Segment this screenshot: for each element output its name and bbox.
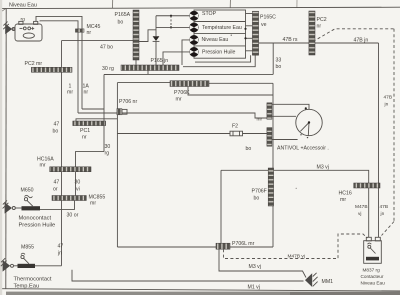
svg-text:bo: bo [254,196,260,202]
wire 33 bo [183,55,255,66]
svg-text:jn: jn [380,211,385,217]
junction dot [244,28,246,30]
scan margin tick [229,0,231,8]
connector antivol lower [267,128,272,147]
svg-text:Niveau Eau: Niveau Eau [9,3,37,9]
svg-text:M650: M650 [21,188,34,194]
wire P706K down right [188,87,273,96]
svg-text:ANTIVOL +Accessoir .: ANTIVOL +Accessoir . [277,146,329,152]
svg-text:jn: jn [384,102,389,108]
connector MC855 [52,196,86,201]
svg-text:STOP: STOP [202,11,217,17]
wire long to antivol [78,113,267,118]
border frame top line [0,7,400,8]
connector P165 [121,65,179,71]
svg-text:bo: bo [118,20,124,26]
svg-text:M47B: M47B [355,204,368,210]
harness box right edge [272,83,274,247]
monocontact M650 [22,195,41,210]
wire 47 bo long vertical [61,72,63,167]
lamp niveau eau [189,35,198,44]
wire row3 to P165C [246,37,253,39]
svg-text:nr: nr [87,30,92,36]
scan speck [136,21,137,22]
lamp STOP [189,11,198,20]
wire row2 to P165C [246,25,253,27]
junction dot [305,107,307,109]
wire 30 rg jog left [76,152,105,167]
fuse F2 [230,131,243,136]
wire M3 drop to P706L [220,170,222,243]
wire 47B jn lower [378,188,380,238]
lamp temperature eau [189,23,198,32]
wire 47 jn vertical [61,201,63,266]
connector PC2 (right) [309,11,315,55]
svg-text:P165 jn: P165 jn [151,58,169,64]
svg-text:mr: mr [176,96,182,102]
svg-text:bo: bo [276,64,282,70]
svg-text:47: 47 [54,122,60,128]
wire antivol mid feed [272,115,296,117]
lamp pression huile [189,47,198,56]
wire to lamp Niveau [182,40,190,65]
battery B1 [15,21,42,41]
left scan edge shading [0,0,2,295]
wire antivol lower to switch [272,139,298,141]
diode D1 [153,36,160,41]
wire PC1 to harness [76,119,117,121]
harness box left edge [116,83,118,247]
border frame left line [5,9,7,290]
scan margin tick [112,0,114,8]
scan margin tick [296,0,298,8]
wire M3 vj lower [219,249,306,277]
svg-text:M855: M855 [21,245,34,251]
wire 47 bo horizontal [62,40,134,42]
wire to lamp Pression [163,52,190,65]
svg-text:P706F: P706F [252,189,267,195]
junction dot [244,37,246,39]
svg-text:47B: 47B [380,204,389,210]
svg-text:P706 nr: P706 nr [119,99,137,105]
svg-text:nr: nr [317,24,322,30]
wire step b [195,55,251,62]
wire battery + upper [36,16,82,29]
svg-text:nr: nr [84,90,89,96]
svg-text:Pression Huile: Pression Huile [202,50,236,56]
wire 1A nr (x82) [81,32,83,109]
border frame bottom line [0,289,400,291]
connector HC16 [354,183,380,188]
svg-text:or: or [53,187,58,193]
scan speck [231,35,232,36]
svg-text:ve: ve [261,22,267,28]
connector PC2 (left) [31,67,72,72]
wire lamp feed vertical [155,16,157,65]
wire 47 drop to PC2 [61,41,63,68]
svg-text:PC2: PC2 [317,17,327,23]
connector P706K [170,81,209,87]
wire 47B jn dashed to M837 [382,222,395,236]
wire M47B vj dashed [224,234,368,259]
thermocontact M855 [18,253,62,268]
svg-text:47: 47 [58,244,64,250]
svg-text:Température Eau: Température Eau [202,25,242,31]
wire 47 or [61,172,63,196]
connector P165A [133,10,139,60]
svg-text:P706L mr: P706L mr [232,241,255,247]
svg-text:F2: F2 [232,124,238,130]
svg-text:47 bo: 47 bo [100,44,113,50]
svg-text:47B rs: 47B rs [283,37,298,43]
svg-text:mr: mr [67,90,73,96]
svg-text:Contacteur: Contacteur [361,274,384,279]
ignition switch (antivol) [296,109,322,138]
connector P706F [268,168,273,206]
svg-text:mr: mr [90,200,96,206]
svg-text:M1 vj: M1 vj [248,285,260,291]
connector MC45 [75,29,84,32]
svg-text:Thermocontact: Thermocontact [14,277,52,283]
contacteur niveau eau M837 [364,237,382,263]
wire row4 to P165C [246,50,253,52]
svg-text:Temp.Eau: Temp.Eau [14,284,40,290]
svg-text:jn: jn [57,251,62,257]
harness box top edge [117,82,273,85]
wire dot link [170,16,172,28]
svg-text:Pression Huile: Pression Huile [19,223,56,229]
svg-text:rg: rg [105,151,110,157]
svg-text:mr: mr [340,197,346,203]
wire 47B jn dashed diagonal [313,29,394,42]
junction dot [170,15,172,17]
svg-text:PC1: PC1 [80,128,90,134]
scan corner tick [2,8,7,11]
svg-text:33: 33 [276,58,282,64]
wire 30 vi [75,172,77,196]
wire 30 rg vertical [103,75,105,152]
ground (M855) [1,258,18,271]
svg-text:P165A: P165A [115,12,131,18]
wire M47B vj [368,188,370,238]
svg-text:30 or: 30 or [67,213,79,219]
wire row1 to P165C [246,13,253,15]
svg-text:47B: 47B [384,95,393,101]
svg-text:Niveau Eau: Niveau Eau [202,37,229,43]
svg-text:M3 vj: M3 vj [317,165,329,171]
wire M3 vj upper [221,170,369,183]
wire to lamp Temperature [156,26,190,28]
connector P165C [252,11,258,55]
svg-text:P165C: P165C [260,15,276,21]
lamp panel box [194,10,246,58]
svg-text:30: 30 [75,180,81,186]
bottom scan dark strip [6,292,400,295]
wire 30 rg to P165 [104,71,273,75]
svg-text:mr: mr [257,117,263,123]
wire P165A pin to lamp feed [139,30,156,42]
wire 47B jn dashed right edge [393,29,395,222]
svg-text:bo: bo [246,146,252,152]
wire M1 vj [72,270,304,281]
wire to lamp STOP [156,15,190,17]
ground (battery) [3,22,15,35]
connector P706 [117,109,127,115]
wire 47B rs [259,42,379,44]
ground MM1 [305,273,318,287]
svg-text:bo: bo [53,129,59,135]
svg-text:Niveau Eau: Niveau Eau [361,281,386,286]
wire 30 or [40,201,75,210]
wire F2 feed [117,133,230,135]
wire P165A to P165 [135,60,137,65]
svg-text:vj: vj [358,211,361,217]
svg-text:M47B vj: M47B vj [288,254,305,260]
wire battery + lower [40,21,78,29]
scan speck [296,188,297,189]
svg-text:mr: mr [40,162,46,168]
svg-text:PC2 mr: PC2 mr [25,61,43,67]
svg-text:30: 30 [105,144,111,150]
wire 33 link vertical [272,43,274,74]
wire 1 mr (x78) [77,32,79,113]
connector antivol upper [267,103,272,119]
svg-text:nr: nr [82,135,87,141]
wire antivol top feed [272,104,309,109]
harness box bottom edge [117,246,273,248]
connector PC1 [73,121,106,126]
ground (M650) [3,200,22,213]
wire F2 to antivol [243,133,267,135]
svg-text:M3 vj: M3 vj [249,264,261,270]
wire 47B rs vertical [378,43,380,183]
svg-text:vi: vi [76,187,80,193]
svg-text:HC16: HC16 [339,191,352,197]
connector HC16A [50,167,91,172]
svg-text:30 rg: 30 rg [102,66,114,72]
svg-text:47B jn: 47B jn [354,38,369,44]
svg-text:Monocontact: Monocontact [19,216,52,222]
connector P706L [216,243,230,249]
svg-text:47: 47 [54,180,60,186]
svg-text:MM1: MM1 [322,279,334,285]
svg-text:M837 rg: M837 rg [363,268,381,273]
wire 1A to 30rg junction [82,108,104,110]
junction dot [170,26,172,28]
